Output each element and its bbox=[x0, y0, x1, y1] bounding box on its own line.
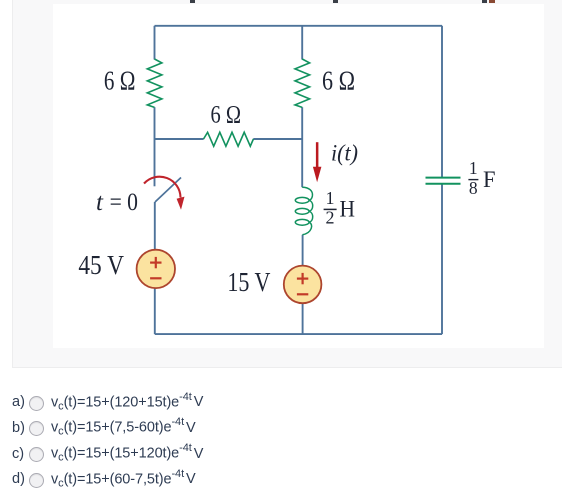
switch arrowhead bbox=[177, 197, 185, 210]
wire 15V source to bottom bbox=[302, 303, 304, 334]
svg-text:= 0: = 0 bbox=[110, 189, 138, 216]
svg-text:i(t): i(t) bbox=[331, 140, 358, 165]
svg-text:F: F bbox=[483, 167, 496, 192]
wire middle node down to inductor bbox=[301, 139, 303, 187]
fraction bar 1/2 bbox=[324, 208, 337, 210]
svg-text:2: 2 bbox=[326, 208, 335, 228]
svg-text:6 Ω: 6 Ω bbox=[211, 100, 242, 129]
cut-off question text slivers at very top bbox=[190, 0, 195, 3]
wire left branch mid node to switch contact bbox=[154, 139, 156, 186]
answer options bbox=[0, 367, 562, 369]
wire inductor to 15V source bbox=[302, 235, 304, 266]
wire middle branch top bbox=[301, 26, 303, 60]
svg-text:1: 1 bbox=[469, 158, 478, 178]
option d bbox=[12, 468, 196, 490]
source V2 15V circle bbox=[284, 266, 322, 304]
quiz panel background bbox=[12, 0, 562, 368]
capacitor C1 plates bbox=[426, 178, 461, 184]
fraction bar 1/8 bbox=[468, 179, 478, 181]
wire mid horizontal right segment bbox=[253, 138, 302, 140]
wire left branch resistor to mid node bbox=[154, 107, 156, 139]
svg-text:1: 1 bbox=[326, 188, 335, 208]
source V1 45V circle bbox=[137, 250, 175, 288]
circuit image white background bbox=[53, 4, 544, 348]
inductor L1 coil bbox=[295, 187, 312, 235]
wire left branch upper bbox=[154, 26, 156, 60]
wire switch to 45V source bbox=[154, 202, 156, 250]
svg-text:15 V: 15 V bbox=[227, 267, 270, 297]
circuit schematic bbox=[0, 0, 562, 368]
switch blade bbox=[155, 178, 181, 203]
wire right branch lower bbox=[441, 185, 443, 335]
switch red arc arrow bbox=[144, 177, 181, 198]
wire middle branch resistor to node bbox=[301, 107, 303, 139]
svg-text:H: H bbox=[340, 197, 356, 222]
wire bottom horizontal bbox=[155, 333, 442, 335]
wire 45V source to bottom bbox=[154, 288, 156, 334]
source V1 polarity signs bbox=[150, 257, 161, 278]
svg-text:6 Ω: 6 Ω bbox=[104, 66, 135, 96]
resistor R2 6ohm middle vertical bbox=[295, 59, 310, 107]
svg-text:6 Ω: 6 Ω bbox=[322, 66, 355, 96]
resistor R1 6ohm left vertical bbox=[147, 59, 162, 107]
source V2 polarity signs bbox=[297, 273, 308, 294]
current arrow i(t) bbox=[313, 142, 322, 182]
option b bbox=[12, 416, 196, 438]
wire right branch upper bbox=[441, 26, 443, 177]
svg-text:8: 8 bbox=[469, 178, 478, 198]
resistor R3 6ohm horizontal bbox=[204, 132, 254, 146]
svg-text:45 V: 45 V bbox=[78, 250, 124, 280]
svg-text:t: t bbox=[96, 189, 104, 216]
option a bbox=[12, 391, 203, 413]
wire top horizontal bbox=[155, 25, 443, 27]
wire mid horizontal left segment bbox=[155, 138, 204, 140]
option c bbox=[12, 442, 203, 464]
